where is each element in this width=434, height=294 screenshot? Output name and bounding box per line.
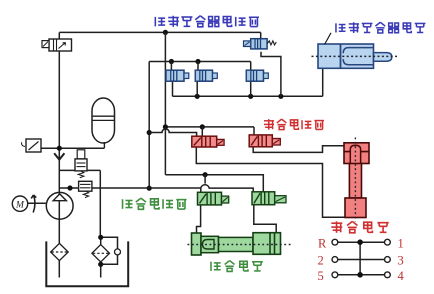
junction rail B 3 [278, 94, 283, 99]
tank walls [46, 241, 128, 286]
junction filter top [98, 235, 103, 240]
select solenoid valve S2 [249, 135, 280, 147]
junction dot3 [200, 124, 205, 129]
gate row y=274.8 [338, 274, 385, 276]
solenoid valve V1 (clutch) [166, 70, 189, 81]
gate middle vertical [359, 242, 361, 275]
solenoid valve V2 (clutch) [195, 70, 217, 81]
junction rail B 2 [248, 94, 253, 99]
bypass wire bottom [101, 255, 118, 264]
gate labels [318, 236, 405, 283]
gate row y=242.2 [338, 241, 385, 243]
wire: drop to select valve2 top [253, 127, 255, 135]
wire: top supply line [59, 31, 260, 33]
wire: vertical feed line x=165 [164, 32, 166, 174]
gate node bottom [357, 272, 363, 278]
wire: drop to clutch solenoid valve top [260, 32, 262, 38]
select solenoid valve S1 [192, 136, 224, 147]
junction dot1 [147, 130, 152, 135]
select cylinder (vertical) [344, 138, 369, 222]
svg-text:R: R [318, 236, 327, 250]
return filter with bypass [92, 237, 110, 277]
wire: vertical x=149 from rail A [148, 62, 150, 189]
solenoid valve V4 (clutch master) [244, 39, 268, 49]
rail A: clutch solenoid valves top rail [149, 61, 251, 63]
label: shift cylinder (green) [211, 261, 263, 272]
wire B y=132.5 with crossing hop [149, 129, 196, 136]
svg-text:2: 2 [318, 254, 324, 268]
svg-text:5: 5 [318, 269, 324, 283]
wire: stub down to arc [204, 175, 206, 184]
wire: pressure switch to accumulator [41, 147, 104, 149]
junction on y=174.7 wire [203, 172, 208, 177]
relief valve pilot nub [42, 41, 49, 48]
shift cylinder [188, 233, 291, 255]
svg-text:4: 4 [398, 269, 405, 283]
bypass wire top [101, 237, 118, 249]
wire: valve2 top stub [197, 62, 199, 71]
motor shaft line [28, 202, 46, 204]
junction rail A / valve1 [169, 59, 174, 64]
suction filter [51, 243, 69, 260]
svg-text:1: 1 [398, 236, 404, 250]
junction dot2 [163, 124, 168, 129]
wire: feed to shift valve 2 top [165, 175, 263, 192]
wire: pump main pressure line vertical [58, 39, 60, 278]
wire: valve1 bottom stub [172, 81, 174, 96]
wire: valve2 bottom stub [196, 81, 198, 96]
accumulator [92, 98, 115, 148]
junction rail B 1 [195, 94, 200, 99]
shift solenoid valve H1 [198, 192, 229, 205]
clutch control cylinder [312, 44, 398, 68]
wire: drop to select valve1 top right port [201, 127, 203, 136]
svg-text:M: M [15, 200, 25, 210]
junction on reducing valve line [67, 185, 72, 190]
junction J2 on top supply line [163, 30, 168, 35]
label: clutch control solenoid valve (blue) [155, 16, 259, 27]
wire: shift valve2 bottom to shift cylinder right port [254, 205, 276, 233]
junction dot4 [147, 186, 152, 191]
flow direction arrow on pump line [54, 153, 64, 159]
junction rail A / valve2 [195, 59, 200, 64]
unloading valve (vertical, with spring) [75, 150, 87, 178]
label: select solenoid valve (red) [264, 119, 324, 130]
relief valve V5 top left [49, 39, 72, 51]
svg-text:3: 3 [398, 254, 404, 268]
wire: valve3 top stub [250, 62, 252, 71]
rail B: clutch solenoid valves bottom rail [173, 95, 323, 97]
gate node top [357, 239, 363, 245]
label: clutch control cylinder (blue) [336, 22, 426, 33]
solenoid valve V3 (clutch) [246, 70, 268, 81]
gate row y=259.5 [338, 259, 385, 261]
wire: relief valve drain line [59, 169, 100, 171]
pressure switch [22, 139, 41, 152]
junction J1 pump line / accumulator line [57, 146, 62, 151]
electric motor M [12, 196, 27, 211]
wire A y=127 to select valves [165, 126, 254, 128]
wire: valve3 bottom stub [250, 81, 252, 96]
junction filter bottom [98, 262, 103, 267]
wire: shift valve1 bottom to shift cylinder left port [197, 205, 201, 233]
rotation arrow [31, 195, 36, 213]
wire: valve1 top stub [170, 62, 172, 71]
wire: relief valve to top rail stub [58, 32, 60, 38]
hydraulic pump [46, 192, 73, 219]
wire: rail B up to clutch cylinder port [322, 68, 324, 96]
label: select cylinder (red) [331, 221, 388, 232]
wire: select valve1 bottom to select cylinder bottom port [196, 147, 345, 217]
wire: reducing valve output to shift valves, with crossing arc [59, 185, 253, 193]
spring squiggle of valve V4 [267, 41, 276, 45]
shift solenoid valve H2 [252, 192, 286, 205]
wire: drain down to return filter [99, 170, 101, 237]
leader line to clutch cylinder label [325, 33, 332, 45]
wire: select valve2 bottom to select cylinder top port [253, 146, 344, 153]
reducing valve (on shift supply line) [79, 181, 92, 197]
wire: clutch valve4 bottom to rail B [261, 52, 281, 97]
label: shift solenoid valve (green) [123, 198, 187, 209]
